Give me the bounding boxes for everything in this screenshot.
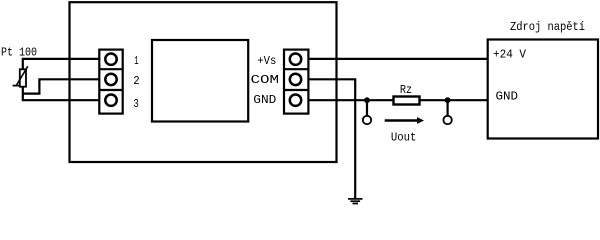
terminal 3 screw [105,95,116,106]
svg-text:Rz: Rz [400,83,412,97]
wire GND to Rz [308,99,393,101]
svg-text:Zdroj napětí: Zdroj napětí [510,20,585,34]
wire: bottom lead branch to terminal 2 (step) [23,79,100,93]
terminal +Vs screw [290,54,301,65]
stub to right probe [447,100,449,115]
open probe terminal right [443,116,451,124]
wire COM to ground [308,79,355,199]
input terminal block (left) [99,50,122,114]
power supply box [488,40,598,139]
svg-text:2: 2 [133,74,139,88]
svg-text:GND: GND [496,90,519,104]
wire: bottom lead to terminal 3 [22,99,100,101]
wire: RTD bottom lead [22,87,24,101]
svg-text:COM: COM [251,73,280,87]
wire Rz to supply GND [420,99,489,101]
wire +Vs to +24V supply [308,58,488,60]
terminal GND screw [290,95,301,106]
transmitter enclosure box [70,2,337,162]
wire: RTD top lead to terminal 1 [23,59,100,70]
RTD diagonal stroke [16,66,28,85]
ground symbol [348,199,363,204]
RTD sensor Pt100 body [20,69,26,86]
terminal 2 screw [105,74,116,85]
output terminal block (right) [284,50,308,114]
svg-text:3: 3 [133,97,138,111]
junction node (left measuring point) [364,97,370,103]
RTD foot dash [13,85,19,87]
Uout arrow [385,117,424,124]
svg-text:Uout: Uout [391,130,417,144]
terminal 1 screw [105,54,116,65]
transmitter module box [152,40,248,122]
svg-text:+24 V: +24 V [493,48,527,62]
svg-text:Pt 100: Pt 100 [1,46,37,60]
svg-text:+Vs: +Vs [257,54,276,68]
junction node (right measuring point) [445,97,451,103]
resistor Rz [394,97,420,105]
svg-text:1: 1 [134,54,138,68]
svg-text:GND: GND [253,93,276,107]
terminal COM screw [290,74,301,85]
open probe terminal left [363,116,371,124]
stub to left probe [366,100,368,115]
